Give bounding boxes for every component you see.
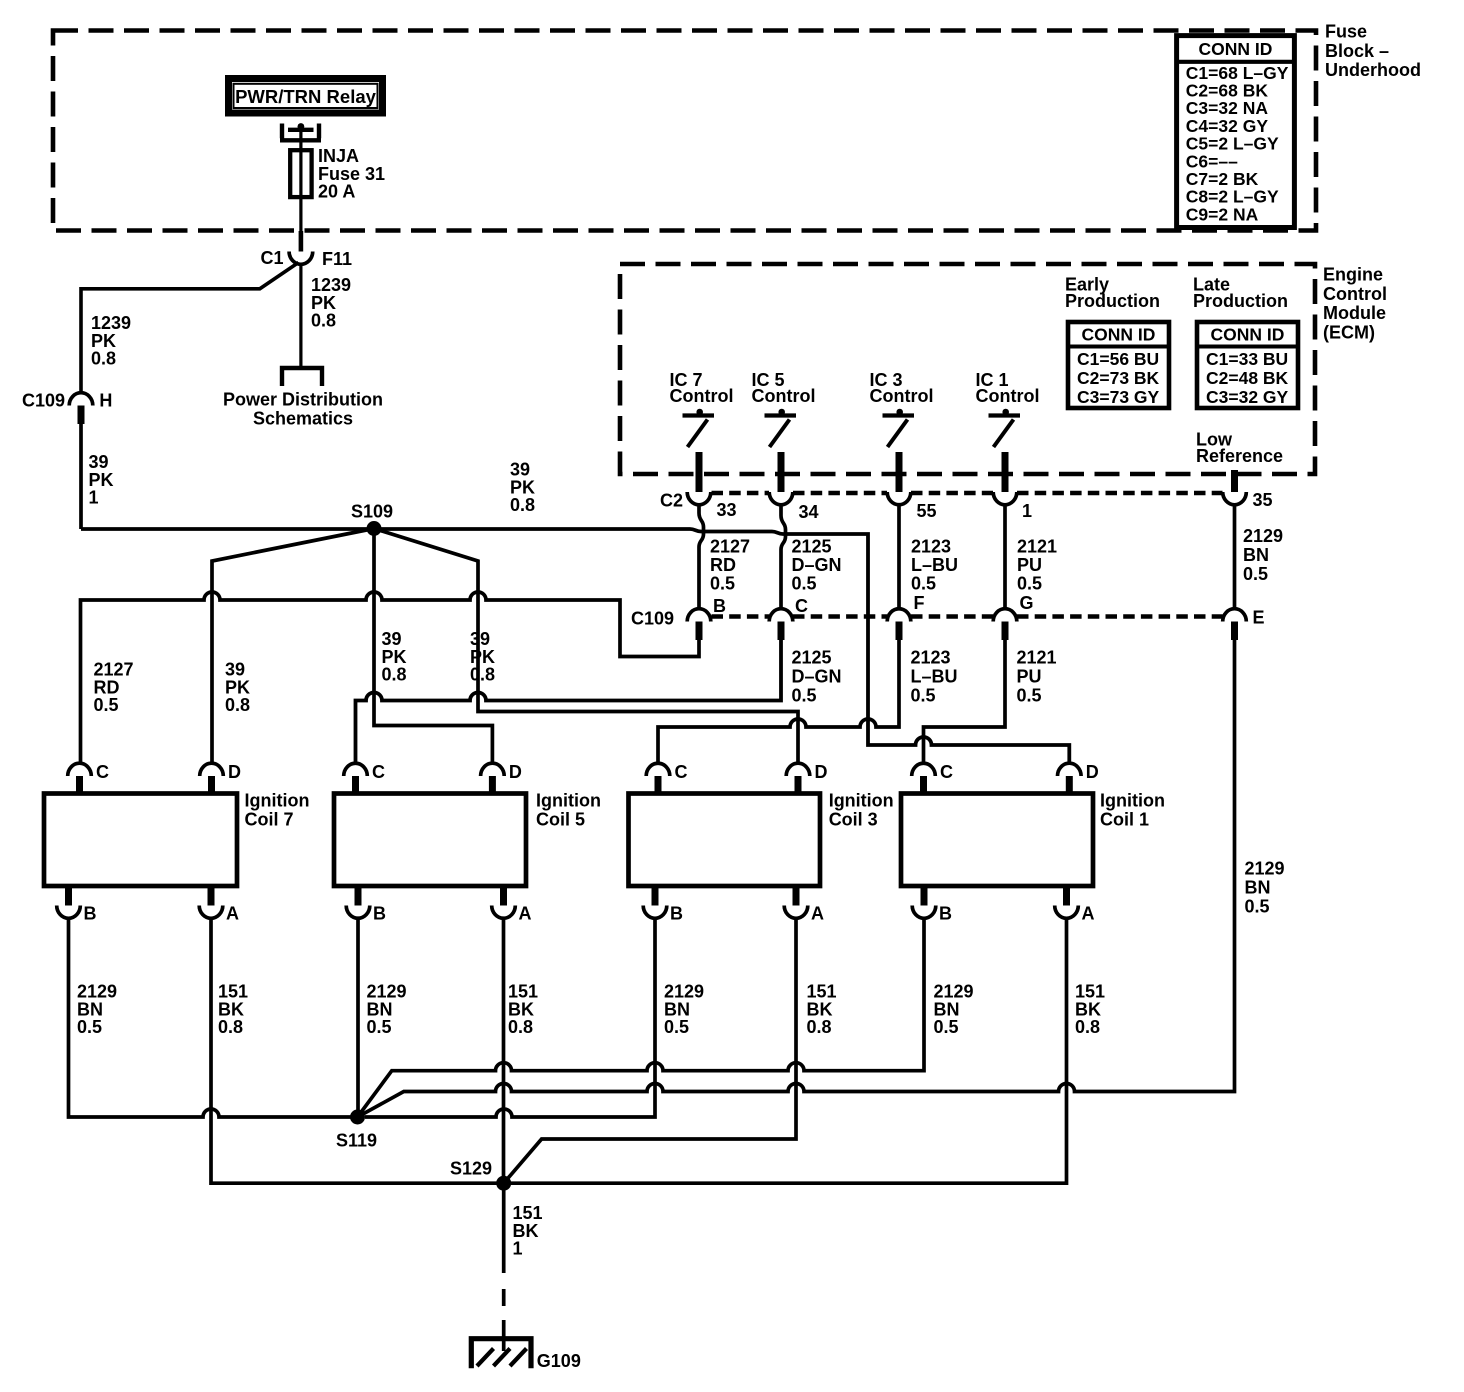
wire 39 PK 1 from C109-H to splice S109 [79, 424, 83, 529]
wire 151 BK 0.8 coil5-A to splice S129 [502, 919, 506, 1183]
off-page bracket to Power Distribution Schematics [282, 368, 322, 386]
wire 2129 BN 0.5 coil5-B to splice S119 [356, 919, 360, 1117]
svg-text:Control: Control [752, 386, 816, 406]
wire 151 BK 1 S129 to ground [502, 1183, 506, 1273]
svg-text:E: E [1253, 608, 1265, 628]
ignition coil 5 box [334, 794, 526, 887]
svg-text:Ignition: Ignition [829, 791, 894, 811]
svg-text:B: B [373, 904, 386, 924]
svg-text:2123: 2123 [911, 537, 951, 557]
coil 7 pin D [200, 763, 224, 776]
svg-text:C109: C109 [631, 609, 674, 629]
thick stub below fuse block border [299, 231, 304, 252]
coil 3 pin A [784, 906, 808, 919]
coil 5 pin A [492, 906, 516, 919]
svg-text:CONN ID: CONN ID [1082, 325, 1156, 345]
ignition coil 3 box [629, 794, 821, 887]
svg-text:PWR/TRN Relay: PWR/TRN Relay [235, 86, 377, 107]
wire 2129 BN 0.5 coil1-B to splice S119 [358, 919, 925, 1117]
svg-text:Coil 3: Coil 3 [829, 810, 878, 830]
connector C109 pin F [887, 609, 911, 622]
conn-id table late production [1197, 322, 1298, 408]
connector C1 pin F11 [289, 252, 313, 265]
svg-text:Control: Control [976, 386, 1040, 406]
svg-text:CONN ID: CONN ID [1199, 39, 1273, 59]
connector C109 pin E [1223, 609, 1247, 622]
svg-text:S129: S129 [450, 1159, 492, 1179]
coil 7 pin B [57, 906, 81, 919]
svg-text:0.8: 0.8 [470, 665, 495, 685]
wire 2129 BN 0.5 C109-E low reference bus [358, 640, 1235, 1117]
svg-text:2123: 2123 [911, 648, 951, 668]
svg-text:F: F [914, 593, 925, 613]
svg-text:C: C [940, 762, 953, 782]
svg-text:0.5: 0.5 [792, 686, 817, 706]
svg-text:C2=48 BK: C2=48 BK [1206, 368, 1289, 388]
svg-text:D: D [509, 762, 522, 782]
coil 5 pin C [344, 763, 368, 776]
connector C109 pin B [687, 609, 711, 622]
coil 3 pin B [643, 906, 667, 919]
svg-text:1: 1 [513, 1239, 523, 1259]
connector C2 pin 55 [887, 492, 911, 505]
svg-text:C3=73 GY: C3=73 GY [1077, 387, 1160, 407]
svg-text:0.5: 0.5 [792, 573, 817, 593]
svg-text:D–GN: D–GN [792, 555, 842, 575]
connector C109 pin G [993, 609, 1017, 622]
svg-text:Block –: Block – [1325, 41, 1389, 61]
svg-text:Coil 1: Coil 1 [1100, 810, 1149, 830]
wire 2129 BN 0.5 coil3-B to splice S119 [365, 919, 655, 1117]
coil 3 pin C [646, 763, 670, 776]
svg-text:B: B [939, 904, 952, 924]
svg-text:H: H [99, 391, 112, 411]
svg-text:A: A [226, 904, 239, 924]
wire 39 PK 0.8 S109 to coil3 pin D [374, 529, 798, 763]
svg-text:S119: S119 [336, 1130, 377, 1150]
svg-text:Production: Production [1065, 291, 1160, 311]
low reference pin stub [1231, 470, 1238, 492]
coil 7 pin A [199, 906, 223, 919]
connector C109 pin C [769, 609, 793, 622]
conn-id table early production [1068, 322, 1169, 408]
svg-text:Fuse: Fuse [1325, 22, 1367, 42]
svg-text:L–BU: L–BU [911, 555, 958, 575]
svg-text:PU: PU [1017, 555, 1042, 575]
wire 1239 PK 0.8 to power distribution [299, 264, 302, 366]
connector C2 pin 33 [687, 492, 711, 505]
svg-text:F11: F11 [322, 249, 352, 269]
wire 39 PK 0.8 main feed from S109 east to coil1 pin D [374, 529, 1069, 763]
svg-text:B: B [84, 904, 97, 924]
svg-text:Engine: Engine [1323, 265, 1383, 285]
connector C2 pin 34 [769, 492, 793, 505]
svg-text:BN: BN [1243, 545, 1269, 565]
svg-text:2125: 2125 [792, 648, 832, 668]
svg-text:C: C [372, 762, 385, 782]
svg-text:Control: Control [1323, 284, 1387, 304]
svg-text:B: B [713, 596, 726, 616]
svg-text:Underhood: Underhood [1325, 60, 1421, 80]
svg-text:0.8: 0.8 [510, 495, 535, 515]
svg-text:PU: PU [1017, 667, 1042, 687]
svg-text:Module: Module [1323, 303, 1386, 323]
svg-text:0.5: 0.5 [1245, 897, 1270, 917]
coil 1 pin C [912, 763, 936, 776]
coil 1 pin A [1055, 906, 1079, 919]
conn-id table for fuse block [1177, 36, 1295, 228]
connector C109 pin H [69, 393, 93, 406]
fuse F11: INJA Fuse 31 20 A [290, 150, 311, 197]
svg-text:D: D [1086, 762, 1099, 782]
svg-text:Control: Control [870, 386, 934, 406]
wire 151 BK 0.8 coil7-A to splice S129 [211, 919, 504, 1183]
svg-text:Ignition: Ignition [536, 791, 601, 811]
svg-text:20 A: 20 A [318, 182, 355, 202]
svg-text:Ignition: Ignition [1100, 791, 1165, 811]
wire from relay through fuse [299, 130, 302, 232]
svg-text:D: D [815, 762, 828, 782]
relay contact terminal bracket [280, 124, 321, 141]
svg-text:D: D [228, 762, 241, 782]
svg-text:0.8: 0.8 [225, 695, 250, 715]
svg-text:C1=33 BU: C1=33 BU [1206, 349, 1288, 369]
svg-text:0.8: 0.8 [91, 349, 116, 369]
svg-text:Ignition: Ignition [245, 791, 310, 811]
svg-text:0.8: 0.8 [218, 1017, 243, 1037]
svg-text:Coil 7: Coil 7 [245, 810, 294, 830]
svg-text:0.5: 0.5 [934, 1017, 959, 1037]
engine control module dashed enclosure [620, 264, 1315, 474]
svg-text:CONN ID: CONN ID [1211, 325, 1285, 345]
wire 151 BK 0.8 coil3-A to splice S129 [504, 919, 796, 1183]
svg-text:1: 1 [1022, 501, 1032, 521]
svg-text:A: A [811, 904, 824, 924]
connector C2 pin 1 [993, 492, 1017, 505]
svg-text:0.8: 0.8 [508, 1017, 533, 1037]
svg-text:0.5: 0.5 [664, 1017, 689, 1037]
svg-text:2129: 2129 [1243, 526, 1283, 546]
svg-text:0.5: 0.5 [1243, 564, 1268, 584]
svg-text:Reference: Reference [1196, 446, 1283, 466]
wire 2125 D-GN 0.5 pin34 to C109-C with jog over 39PK wire [781, 506, 786, 609]
svg-text:Power Distribution: Power Distribution [223, 389, 383, 409]
coil 7 pin C [68, 763, 92, 776]
wire 2121 PU 0.5 C109-G to coil1 pin C [924, 640, 1006, 763]
svg-text:C: C [795, 596, 808, 616]
svg-text:S109: S109 [351, 501, 393, 521]
svg-text:34: 34 [799, 502, 819, 522]
svg-text:C3=32 GY: C3=32 GY [1206, 387, 1289, 407]
svg-text:2121: 2121 [1017, 537, 1057, 557]
svg-text:Control: Control [670, 386, 734, 406]
svg-text:0.8: 0.8 [382, 665, 407, 685]
svg-text:C1=56 BU: C1=56 BU [1077, 349, 1159, 369]
svg-text:G109: G109 [537, 1351, 581, 1371]
svg-text:(ECM): (ECM) [1323, 322, 1375, 342]
svg-text:0.5: 0.5 [77, 1017, 102, 1037]
ignition coil 1 box [901, 794, 1093, 887]
wire 39 PK 0.8 S109 to coil7 pin D [212, 529, 374, 763]
svg-text:0.8: 0.8 [807, 1017, 832, 1037]
svg-text:L–BU: L–BU [911, 667, 958, 687]
svg-text:A: A [1082, 904, 1095, 924]
wire 2125 D-GN 0.5 C109-C to coil5 pin C [356, 640, 782, 763]
coil 3 pin D [786, 763, 810, 776]
svg-text:0.5: 0.5 [710, 573, 735, 593]
svg-text:C2=73 BK: C2=73 BK [1077, 368, 1160, 388]
svg-text:D–GN: D–GN [792, 667, 842, 687]
svg-text:1: 1 [89, 488, 99, 508]
svg-text:Production: Production [1193, 291, 1288, 311]
svg-text:2125: 2125 [792, 537, 832, 557]
coil 1 pin B [912, 906, 936, 919]
svg-text:BN: BN [1245, 878, 1271, 898]
svg-text:Schematics: Schematics [253, 408, 353, 428]
connector C2 pin 35 [1223, 492, 1247, 505]
svg-text:C: C [96, 762, 109, 782]
svg-text:2129: 2129 [1245, 859, 1285, 879]
wire 2129 BN 0.5 coil7-B to splice S119 [69, 919, 358, 1117]
svg-text:33: 33 [717, 500, 737, 520]
svg-text:0.5: 0.5 [1017, 573, 1042, 593]
svg-text:0.8: 0.8 [311, 311, 336, 331]
svg-text:C1: C1 [260, 248, 283, 268]
svg-text:0.5: 0.5 [1017, 686, 1042, 706]
svg-text:0.5: 0.5 [94, 695, 119, 715]
svg-text:0.5: 0.5 [367, 1017, 392, 1037]
wire 151 BK 0.8 coil1-A to splice S129 [504, 919, 1067, 1183]
wire 2123 L-BU 0.5 pin55 to C109-F [897, 506, 901, 609]
svg-text:RD: RD [710, 555, 736, 575]
svg-text:G: G [1020, 593, 1034, 613]
coil 1 pin D [1058, 763, 1082, 776]
coil 5 pin B [346, 906, 370, 919]
svg-text:2121: 2121 [1017, 648, 1057, 668]
ground G109 [471, 1339, 531, 1369]
wire 39 PK 0.8 S109 to coil5 pin D [374, 529, 492, 763]
svg-text:0.5: 0.5 [911, 686, 936, 706]
svg-text:C9=2 NA: C9=2 NA [1186, 204, 1259, 224]
svg-text:B: B [670, 904, 683, 924]
svg-text:C: C [675, 762, 688, 782]
svg-text:35: 35 [1253, 490, 1273, 510]
svg-text:A: A [519, 904, 532, 924]
wire 2121 PU 0.5 pin1 to C109-G [1003, 506, 1007, 609]
svg-text:C2: C2 [660, 491, 683, 511]
ignition coil 7 box [44, 794, 237, 887]
fuse block - underhood dashed enclosure [53, 31, 1316, 231]
wire 2123 L-BU 0.5 C109-F to coil3 pin C [658, 640, 899, 763]
wire 2127 RD 0.5 pin33 to C109-B with jog over 39PK wire [699, 506, 704, 609]
svg-text:0.8: 0.8 [1075, 1017, 1100, 1037]
wire 1239 PK 0.8 branch to C109 [81, 263, 299, 393]
svg-text:2127: 2127 [710, 537, 750, 557]
coil 5 pin D [481, 763, 505, 776]
wire 2127 RD 0.5 C109-B to coil7 pin C [81, 592, 700, 763]
svg-text:Coil 5: Coil 5 [536, 810, 585, 830]
svg-text:C109: C109 [22, 390, 65, 410]
relay K: PWR/TRN Relay box [229, 79, 383, 114]
svg-text:55: 55 [917, 501, 937, 521]
svg-text:0.5: 0.5 [911, 573, 936, 593]
wire 2129 BN 0.5 pin35 to C109-E [1233, 506, 1237, 609]
